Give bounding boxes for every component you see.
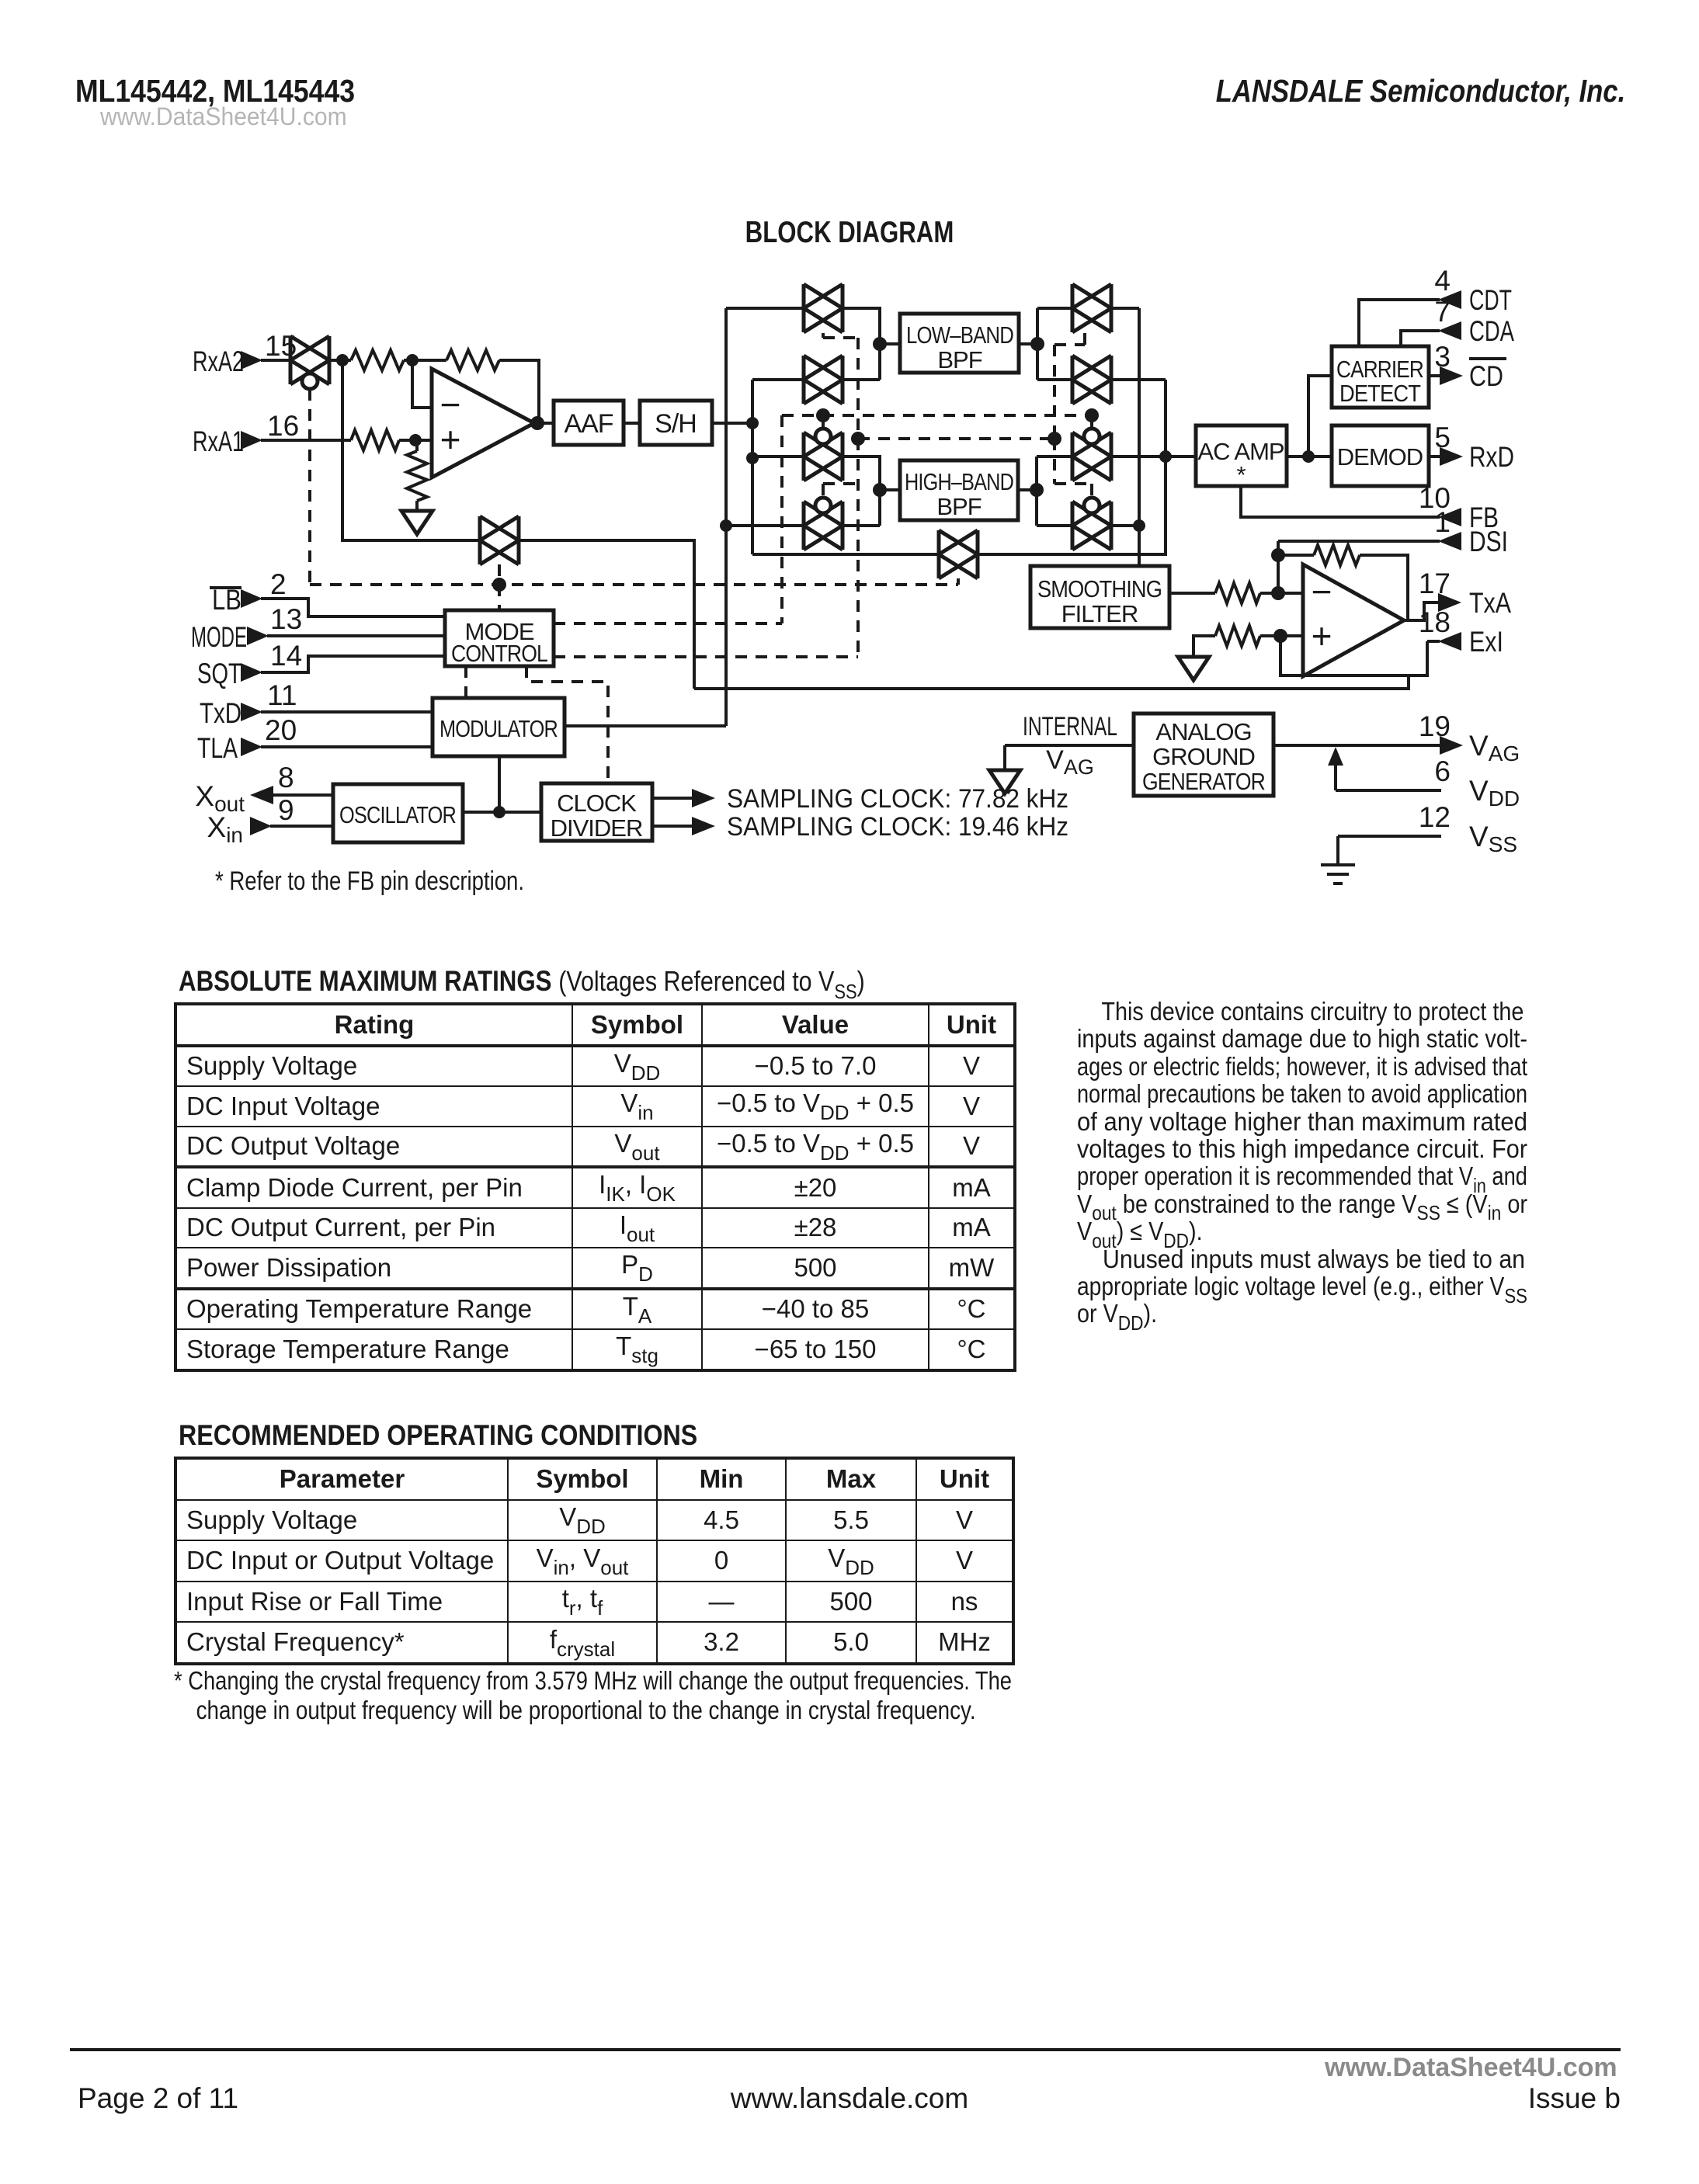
node P junction	[1273, 629, 1287, 643]
node U control junction	[851, 432, 865, 446]
dashed wire SW0 control to bus	[308, 389, 311, 585]
pin DSI (1)	[1434, 506, 1508, 557]
svg-text:RxA1: RxA1	[193, 425, 244, 457]
node C junction	[409, 434, 422, 446]
svg-text:12: 12	[1419, 801, 1451, 833]
wire Xout lead	[272, 793, 333, 797]
dashed wire H2 to SW3R circle	[1090, 415, 1093, 428]
pin RxA2 (15)	[193, 330, 297, 377]
footer rule	[70, 2048, 1621, 2051]
wire SW1R/SW4R outputs tie to smoothing filter	[1111, 308, 1139, 566]
block MODE CONTROL	[445, 610, 554, 667]
svg-text:CONTROL: CONTROL	[451, 640, 548, 667]
pin RxD (5)	[1434, 422, 1514, 473]
table: absolute maximum ratings title	[179, 965, 865, 1002]
svg-text:HIGH–BAND: HIGH–BAND	[905, 468, 1013, 495]
node K junction	[1133, 519, 1145, 532]
pin TxA (17)	[1419, 568, 1511, 619]
dashed wire mode control to clock divider	[526, 666, 608, 783]
wire S/H output to node D	[712, 422, 752, 425]
svg-text:1: 1	[1434, 506, 1451, 538]
node J junction	[1030, 483, 1044, 497]
wire node B to U1 inverting input	[412, 360, 432, 408]
svg-text:Xin: Xin	[207, 811, 243, 847]
block OSCILLATOR	[333, 784, 463, 842]
pin CD-bar (3)	[1434, 341, 1506, 392]
svg-text:7: 7	[1434, 296, 1451, 328]
resistor R3	[351, 430, 399, 450]
wire FB line from AC AMP	[1241, 486, 1440, 517]
pin CDT (4)	[1434, 265, 1512, 316]
pin CDA (7)	[1434, 296, 1514, 347]
dashed wire SW1L control stub	[823, 333, 858, 338]
wire node A down to SW6 input	[342, 360, 480, 540]
svg-text:GENERATOR: GENERATOR	[1142, 768, 1265, 795]
node M junction	[1302, 450, 1315, 463]
wire node E to SW3L input	[752, 455, 804, 458]
pin TLA (20)	[197, 714, 297, 764]
svg-text:SAMPLING CLOCK: 77.82 kHz: SAMPLING CLOCK: 77.82 kHz	[727, 784, 1068, 814]
svg-text:DSI: DSI	[1469, 526, 1508, 557]
wire CDT line	[1359, 300, 1440, 346]
node R control bus junction	[492, 578, 506, 592]
node F junction	[720, 519, 732, 532]
wire VDD line	[1336, 789, 1441, 792]
svg-text:16: 16	[267, 410, 299, 442]
pin MODE (13)	[191, 603, 302, 653]
block HIGH-BAND BPF	[900, 460, 1018, 520]
wire SQT to mode control	[261, 656, 445, 672]
wire internal VAG lead	[1005, 745, 1134, 769]
node B junction	[406, 354, 419, 366]
pin VDD (6)	[1434, 755, 1520, 811]
dashed wire H2 to SW3L circle	[822, 415, 825, 428]
wire CD line	[1429, 374, 1441, 377]
wire LOW-BAND BPF output fan to SW1R/SW2R	[1019, 308, 1072, 380]
pin LB-bar (2)	[210, 568, 287, 616]
pin VAG (19)	[1419, 710, 1520, 766]
svg-text:CDT: CDT	[1469, 284, 1512, 316]
table: absolute maximum ratings	[174, 1002, 1016, 1372]
dashed wire H3 to SW4L circle	[823, 484, 858, 497]
block S/H sample and hold	[640, 401, 712, 445]
node O junction	[1271, 548, 1285, 562]
svg-text:2: 2	[270, 568, 287, 600]
wire node P to bottom rail	[1280, 636, 1427, 675]
paragraph: ESD note	[1077, 998, 1527, 1328]
block LOW-BAND BPF	[900, 314, 1019, 373]
wire U1 output to AAF	[534, 422, 554, 425]
svg-text:TLA: TLA	[197, 732, 238, 764]
footer issue	[1528, 2082, 1621, 2115]
svg-text:VAG: VAG	[1469, 730, 1520, 766]
svg-text:4: 4	[1434, 265, 1451, 297]
svg-text:17: 17	[1419, 568, 1451, 599]
svg-text:3: 3	[1434, 341, 1451, 373]
svg-text:SAMPLING CLOCK: 19.46 kHz: SAMPLING CLOCK: 19.46 kHz	[727, 812, 1068, 842]
node A junction	[336, 354, 349, 366]
wire U2 output step	[1404, 602, 1440, 620]
svg-text:CD: CD	[1469, 360, 1503, 392]
wire R6 to U2 output	[1360, 555, 1408, 620]
wire AC AMP output node	[1287, 455, 1332, 458]
svg-text:+: +	[440, 419, 461, 460]
dashed wire mode control to modulator	[464, 666, 467, 698]
block ANALOG GROUND GENERATOR	[1134, 714, 1273, 796]
node G junction	[873, 337, 887, 351]
wire RxA2 lead	[261, 359, 290, 362]
node V control junction	[1048, 432, 1061, 446]
svg-text:DETECT: DETECT	[1339, 380, 1421, 407]
svg-text:8: 8	[278, 762, 294, 793]
wire S/H bypass rail left segment	[752, 553, 939, 556]
node L junction	[1159, 450, 1172, 463]
wire SW3L/SW4L outputs tie to HIGH-BAND BPF	[843, 457, 900, 526]
wire DSI line	[1278, 541, 1440, 555]
dashed wire mode control to H2 bus	[554, 415, 782, 623]
switch SW1R	[1072, 284, 1111, 332]
node T control junction	[1085, 408, 1099, 422]
svg-text:MODE: MODE	[191, 621, 247, 653]
svg-text:19: 19	[1419, 710, 1451, 742]
footer page number	[78, 2082, 238, 2115]
svg-text:5: 5	[1434, 422, 1451, 453]
svg-text:DIVIDER: DIVIDER	[551, 814, 643, 842]
svg-text:RxA2: RxA2	[193, 345, 244, 377]
block CARRIER DETECT	[1332, 346, 1429, 408]
wire RxA1 lead	[261, 439, 351, 442]
pin Xout (8)	[195, 762, 294, 816]
header: company	[1216, 73, 1625, 109]
resistor R1	[351, 350, 404, 370]
pin TxD (11)	[200, 679, 297, 729]
svg-text:FILTER: FILTER	[1061, 600, 1138, 627]
wire LB to mode control	[261, 599, 445, 616]
wire HIGH-BAND BPF output fan to SW3R/SW4R	[1018, 457, 1072, 526]
wire feedback node to R6	[1278, 554, 1314, 557]
pin VSS (12)	[1419, 801, 1517, 856]
op-amp U1	[432, 369, 534, 477]
dashed wire H3 to SW4R circle	[1054, 439, 1092, 497]
wire TLA to modulator	[261, 745, 433, 748]
block AC AMP	[1196, 425, 1287, 488]
switch SW2R	[1072, 356, 1111, 404]
resistor R7	[1215, 626, 1260, 646]
svg-text:AAF: AAF	[564, 409, 613, 439]
pin RxA1 (16)	[193, 410, 299, 457]
header: watermark	[100, 102, 347, 131]
wire node C to R4	[415, 440, 419, 451]
wire modulator output to switch bank tie	[565, 724, 726, 727]
node H junction	[1030, 337, 1044, 351]
resistor R5	[1215, 583, 1260, 603]
wire SW2R output to AC AMP net	[1111, 378, 1166, 381]
svg-text:DEMOD: DEMOD	[1337, 443, 1423, 470]
dashed wire SW6 control stub	[498, 564, 501, 585]
dashed wire control bus	[310, 583, 958, 586]
header: part numbers	[75, 73, 355, 109]
wire SW1L/SW2L outputs tie to LOW-BAND BPF	[843, 308, 900, 380]
dashed wire bus to mode control top	[498, 585, 501, 610]
wire sampling clock 2	[652, 812, 1068, 842]
wire R5 to U2 inverting input	[1260, 592, 1303, 595]
switch SW6 input bypass gate	[480, 516, 519, 564]
wire smoothing filter output to R5	[1169, 592, 1215, 595]
wire TxA bottom rail	[694, 675, 1409, 689]
analog ground G1	[401, 511, 433, 534]
svg-text:* Refer to the FB pin descript: * Refer to the FB pin description.	[215, 866, 524, 896]
switch SW2L	[804, 356, 843, 404]
wire node D branch to SW2L input	[752, 380, 804, 554]
svg-text:VDD: VDD	[1469, 775, 1520, 811]
wire smoothing filter input	[1138, 526, 1141, 566]
svg-text:−: −	[1312, 571, 1332, 612]
resistor R4	[407, 451, 427, 501]
dashed wire SW1R control stub	[1054, 333, 1085, 439]
wire sampling clock 1	[652, 784, 1068, 814]
svg-text:INTERNAL: INTERNAL	[1023, 712, 1117, 741]
wire VAG output line	[1273, 744, 1441, 747]
switch SW4L (inverted control)	[804, 498, 843, 550]
svg-text:BPF: BPF	[936, 493, 981, 520]
wire VSS line	[1338, 835, 1441, 838]
switch SW5 bypass gate	[939, 530, 978, 578]
wire MODE to mode control	[267, 634, 445, 637]
svg-text:BPF: BPF	[937, 346, 982, 373]
footer url	[0, 2082, 1699, 2115]
svg-text:CLOCK: CLOCK	[557, 790, 637, 817]
wire SW1L/SW4L input tie from modulator	[726, 308, 804, 726]
resistor R2 feedback	[446, 350, 499, 370]
block DEMOD	[1332, 425, 1429, 486]
dashed wire H2 control line	[782, 414, 1092, 417]
analog ground G3	[989, 770, 1020, 793]
switch SW1L	[804, 284, 843, 332]
switch SW4R (inverted control)	[1072, 498, 1111, 550]
svg-text:LOW–BAND: LOW–BAND	[906, 321, 1013, 349]
label INTERNAL VAG	[1023, 712, 1117, 779]
block CLOCK DIVIDER	[541, 783, 652, 842]
table: recommended operating conditions	[174, 1457, 1015, 1665]
svg-text:14: 14	[270, 640, 302, 672]
svg-text:SMOOTHING: SMOOTHING	[1037, 575, 1162, 602]
wire CDA line	[1401, 331, 1440, 346]
svg-text:ANALOG: ANALOG	[1155, 718, 1251, 745]
dashed wire mode control to H3 bus	[554, 338, 858, 657]
wire R3 to U1 non-inverting input	[399, 439, 432, 442]
wire S/H bypass rail right segment	[978, 380, 1166, 554]
svg-text:*: *	[1236, 461, 1246, 488]
wire Xin lead	[270, 825, 333, 828]
node Q junction	[493, 806, 506, 818]
wire SW0 to node A	[329, 359, 351, 362]
wire node N to feedback node	[1277, 555, 1280, 593]
wire G2 to R7	[1193, 636, 1215, 657]
footer watermark	[1325, 2053, 1617, 2083]
svg-text:20: 20	[265, 714, 297, 746]
svg-text:18: 18	[1419, 606, 1451, 638]
node I junction	[873, 483, 887, 497]
svg-text:GROUND: GROUND	[1152, 743, 1255, 770]
analog ground G2	[1178, 657, 1209, 680]
table: recommended operating conditions title	[179, 1419, 697, 1452]
resistor R6 feedback	[1314, 545, 1360, 565]
pin ExI (18)	[1419, 606, 1503, 658]
svg-text:VSS: VSS	[1469, 821, 1517, 856]
wire R7 to U2 non-inverting input	[1260, 634, 1303, 637]
wire R4 to analog ground	[415, 501, 419, 511]
pin Xin (9)	[207, 794, 294, 847]
footnote: crystal frequency	[174, 1666, 1187, 1725]
pin SQT (14)	[197, 640, 302, 689]
diagram title	[170, 216, 1529, 250]
svg-text:+: +	[1312, 616, 1332, 656]
wire R1 to node B	[404, 359, 446, 362]
wire RxD line	[1429, 455, 1441, 458]
svg-text:TxD: TxD	[200, 697, 241, 729]
op-amp U2	[1303, 564, 1404, 676]
wire SW3R output to AC AMP	[1111, 455, 1196, 458]
pin FB (10)	[1419, 482, 1499, 533]
svg-text:ExI: ExI	[1469, 626, 1503, 658]
block AAF	[554, 401, 624, 445]
block SMOOTHING FILTER	[1030, 566, 1169, 628]
node S control junction	[816, 408, 830, 422]
block MODULATOR	[433, 698, 565, 756]
svg-text:11: 11	[267, 679, 297, 711]
dashed wire H3 control line	[858, 437, 1054, 440]
wire AAF to S/H	[624, 422, 640, 425]
ground VSS symbol	[1321, 836, 1355, 884]
svg-text:VAG: VAG	[1046, 745, 1094, 779]
arrow VDD to VAG rail	[1328, 747, 1343, 790]
switch SW3R (inverted control)	[1072, 429, 1111, 481]
node E junction	[746, 452, 759, 464]
wire ExI line	[1427, 640, 1440, 643]
svg-text:6: 6	[1434, 755, 1451, 787]
dashed wire SW5 control stub	[957, 578, 960, 585]
wire node M to carrier detect	[1308, 376, 1332, 457]
node N junction	[1271, 586, 1285, 600]
svg-text:CDA: CDA	[1469, 315, 1514, 347]
node U1 output junction	[530, 416, 544, 430]
wire TxD to modulator	[261, 710, 433, 714]
svg-text:MODULATOR: MODULATOR	[440, 715, 558, 742]
svg-text:CARRIER: CARRIER	[1336, 356, 1423, 383]
switch SW0 input analog switch (inverted control)	[290, 336, 329, 389]
switch SW3L (inverted control)	[804, 429, 843, 481]
svg-text:OSCILLATOR: OSCILLATOR	[339, 801, 456, 828]
svg-text:S/H: S/H	[655, 409, 697, 439]
node D junction	[746, 417, 759, 429]
svg-text:SQT: SQT	[197, 658, 241, 689]
svg-text:13: 13	[270, 603, 302, 635]
wire oscillator to clock divider	[463, 811, 541, 814]
svg-text:9: 9	[278, 794, 294, 826]
wire R2 to op-amp U1 output	[499, 360, 539, 423]
svg-text:TxA: TxA	[1469, 587, 1511, 619]
wire node Q to modulator	[498, 756, 501, 812]
wire SW6 output to TxA summing rail	[519, 540, 694, 689]
svg-text:RxD: RxD	[1469, 441, 1514, 473]
